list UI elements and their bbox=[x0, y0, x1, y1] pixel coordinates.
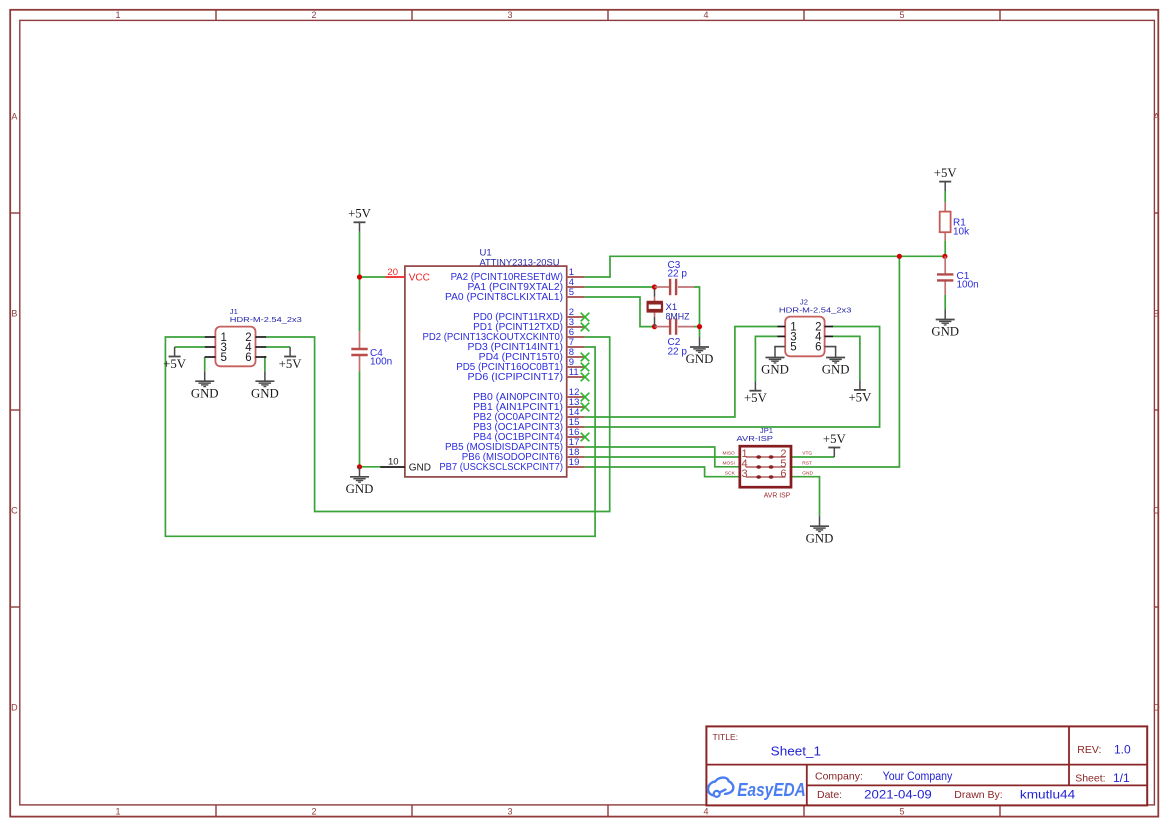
svg-text:TITLE:: TITLE: bbox=[713, 732, 739, 742]
svg-text:RST: RST bbox=[802, 460, 812, 466]
svg-text:GND: GND bbox=[806, 531, 834, 545]
+5V power port J1 pin3 bbox=[163, 347, 187, 371]
wire J2 pin4 to +5V bbox=[833, 336, 860, 380]
svg-text:2021-04-09: 2021-04-09 bbox=[864, 788, 932, 802]
junction GND / U1 pin10 bbox=[357, 464, 362, 469]
op-amp U1 body (IC ATTINY2313-20SU) bbox=[405, 248, 567, 477]
svg-text:5: 5 bbox=[790, 342, 796, 354]
U1 pin 9 (PD5) bbox=[456, 357, 589, 373]
+5V power port VCC rail bbox=[348, 207, 372, 232]
+5V power port J2 pin3 bbox=[744, 381, 768, 405]
svg-text:5: 5 bbox=[899, 806, 904, 816]
svg-text:20: 20 bbox=[387, 267, 398, 278]
junction RESET net node bbox=[897, 254, 902, 259]
U1 pin 15 (PB3) bbox=[473, 417, 585, 433]
svg-text:+5V: +5V bbox=[934, 166, 958, 180]
svg-text:6: 6 bbox=[245, 352, 251, 364]
capacitor C1 100n bbox=[937, 271, 979, 291]
svg-text:100n: 100n bbox=[957, 280, 979, 291]
wire C4 bottom to GND junction bbox=[359, 372, 361, 467]
U1 pin 1 (PA2) bbox=[451, 267, 585, 283]
svg-text:SCK: SCK bbox=[725, 470, 736, 476]
U1 pin 13 (PB1) bbox=[473, 397, 589, 413]
wire VCC junction to U1 pin 20 bbox=[360, 276, 386, 278]
svg-text:GND: GND bbox=[686, 352, 714, 366]
svg-text:GND: GND bbox=[409, 462, 431, 473]
svg-text:4: 4 bbox=[703, 806, 708, 816]
wire net MISO: U1 pin18 to JP1 pin1 bbox=[585, 456, 740, 458]
J2 pin 5 with ground lead bbox=[775, 342, 797, 354]
svg-text:AVR-ISP: AVR-ISP bbox=[737, 434, 774, 443]
U1 pin 8 (PD4) bbox=[479, 347, 590, 363]
wire net MOSI: U1 pin17 to JP1 pin4 bbox=[585, 447, 740, 467]
svg-text:5: 5 bbox=[569, 287, 574, 298]
J1 pin 3 bbox=[205, 342, 227, 354]
U1 pin 17 (PB5) bbox=[445, 437, 585, 453]
svg-text:D: D bbox=[1153, 702, 1160, 712]
svg-text:MISO: MISO bbox=[723, 450, 736, 456]
J1 pin 6 bbox=[245, 352, 266, 364]
svg-text:AVR ISP: AVR ISP bbox=[764, 491, 791, 500]
svg-text:GND: GND bbox=[251, 386, 279, 400]
svg-text:+5V: +5V bbox=[848, 390, 872, 404]
U1 pin 5 (PA0) bbox=[445, 287, 585, 303]
connector J1 HDR-M-2.54_2x3 bbox=[215, 307, 301, 366]
wire J1 pin6 to GND bbox=[265, 357, 266, 371]
svg-text:Company:: Company: bbox=[815, 770, 863, 782]
svg-text:A: A bbox=[11, 111, 17, 121]
wire GND junction to U1 pin 10 bbox=[360, 466, 381, 468]
wire J2 pin3 to +5V bbox=[755, 336, 777, 381]
wire net PB2: U1 pin14 to J2 pin1 bbox=[585, 327, 778, 418]
svg-text:8MHZ: 8MHZ bbox=[666, 312, 690, 323]
svg-text:1: 1 bbox=[115, 10, 120, 20]
wire net XTAL1: U1 pin5 PA0 to C2/X1 node bbox=[585, 297, 655, 327]
svg-text:VCC: VCC bbox=[409, 272, 430, 283]
svg-text:5: 5 bbox=[221, 352, 227, 364]
svg-text:VTG: VTG bbox=[802, 450, 812, 456]
wire VCC rail: +5V down through C4 top bbox=[359, 232, 361, 331]
U1 pin 7 (PD3) bbox=[468, 337, 585, 353]
resistor R1 10k bbox=[940, 202, 970, 241]
svg-text:10k: 10k bbox=[953, 227, 970, 238]
U1 pin 4 (PA1) bbox=[468, 277, 585, 293]
U1 pin 16 (PB4) bbox=[473, 427, 589, 443]
U1 pin 2 (PD0) bbox=[473, 307, 589, 323]
U1 pin 6 (PD2) bbox=[423, 327, 585, 343]
svg-text:A: A bbox=[1153, 111, 1159, 121]
svg-text:GND: GND bbox=[346, 482, 374, 496]
wire net RESET: U1 pin1 PA2 to R1/C1 node bbox=[585, 256, 945, 277]
capacitor C4 100n bbox=[351, 348, 392, 367]
svg-text:4: 4 bbox=[703, 10, 708, 20]
wire +5V to R1 top bbox=[944, 191, 946, 202]
J2 pin 1 bbox=[777, 322, 797, 334]
svg-text:1/1: 1/1 bbox=[1113, 771, 1130, 785]
capacitor C2 leads bbox=[655, 326, 671, 328]
junction XTAL2 node bbox=[652, 284, 657, 289]
junction XTAL1 node bbox=[652, 324, 657, 329]
svg-text:GND: GND bbox=[802, 470, 813, 476]
U1 pin 19 (PB7) bbox=[439, 457, 584, 473]
header JP1 AVR-ISP bbox=[737, 426, 792, 500]
capacitor C4 leads bbox=[359, 331, 361, 348]
J1 pin 4 bbox=[245, 342, 266, 354]
ground crystal caps bbox=[686, 337, 714, 366]
wire net PD3: U1 pin7 to J1 pin1 bbox=[165, 337, 595, 536]
wire net SCK: U1 pin19 to JP1 pin3 bbox=[585, 467, 740, 477]
svg-text:GND: GND bbox=[191, 386, 219, 400]
svg-text:3: 3 bbox=[507, 806, 512, 816]
+5V power port J1 pin4 bbox=[279, 347, 303, 371]
svg-text:22 p: 22 p bbox=[668, 347, 688, 358]
ground J1 pin5 bbox=[191, 371, 219, 400]
ground C1 bottom bbox=[931, 310, 959, 339]
svg-text:Drawn By:: Drawn By: bbox=[954, 789, 1002, 801]
svg-text:5: 5 bbox=[899, 10, 904, 20]
capacitor C1 leads bbox=[944, 256, 946, 273]
svg-text:C: C bbox=[1153, 505, 1160, 515]
J1 pin 2 bbox=[245, 332, 266, 344]
ground J1 pin6 bbox=[251, 371, 279, 400]
U1 pin 14 (PB2) bbox=[473, 407, 585, 423]
+5V power port J2 pin4 bbox=[848, 380, 872, 404]
svg-text:11: 11 bbox=[569, 367, 579, 378]
U1 pin 12 (PB0) bbox=[473, 387, 589, 403]
J2 pin 2 bbox=[815, 322, 833, 334]
svg-text:1: 1 bbox=[115, 806, 120, 816]
wire J1 pin4 to +5V bbox=[266, 346, 290, 348]
JP1 pin 4 (MOSI) and pin 5 (RST) bbox=[723, 458, 812, 470]
svg-text:Your Company: Your Company bbox=[883, 771, 953, 783]
svg-text:2: 2 bbox=[311, 806, 316, 816]
svg-text:PD6 (ICPIPCINT17): PD6 (ICPIPCINT17) bbox=[468, 372, 564, 383]
junction R1/C1 node bbox=[942, 254, 947, 259]
svg-text:GND: GND bbox=[761, 363, 789, 377]
svg-text:1.0: 1.0 bbox=[1114, 742, 1131, 756]
wire J1 pin3 to +5V bbox=[175, 346, 205, 348]
J1 pin 5 bbox=[205, 352, 227, 364]
svg-text:B: B bbox=[11, 308, 17, 318]
ground JP1 pin6 bbox=[806, 516, 834, 545]
J2 pin 6 with ground lead bbox=[815, 342, 836, 354]
svg-text:+5V: +5V bbox=[744, 391, 768, 405]
wire net PB3: U1 pin15 to J2 pin2 bbox=[585, 327, 880, 428]
svg-text:kmutlu44: kmutlu44 bbox=[1020, 788, 1076, 802]
junction C2/C3 ground node bbox=[697, 324, 702, 329]
U1 pin 10 GND bbox=[380, 456, 431, 473]
svg-text:19: 19 bbox=[569, 457, 580, 468]
capacitor C2 22p bbox=[668, 318, 688, 357]
junction VCC / U1 pin20 bbox=[357, 274, 362, 279]
svg-text:GND: GND bbox=[822, 363, 850, 377]
wire C1 bottom to GND bbox=[944, 295, 946, 310]
svg-text:+5V: +5V bbox=[823, 432, 847, 446]
JP1 pin 1 (MISO) and pin 2 (VTG) bbox=[723, 448, 813, 460]
svg-text:+5V: +5V bbox=[163, 357, 187, 371]
svg-text:Sheet_1: Sheet_1 bbox=[771, 743, 821, 758]
svg-text:6: 6 bbox=[815, 342, 821, 354]
svg-text:+5V: +5V bbox=[348, 207, 372, 221]
svg-text:D: D bbox=[11, 702, 18, 712]
svg-text:2: 2 bbox=[311, 10, 316, 20]
svg-text:100n: 100n bbox=[370, 356, 392, 367]
svg-text:3: 3 bbox=[507, 10, 512, 20]
J2 pin 3 bbox=[777, 331, 797, 343]
wire JP1 pin2 VTG to +5V bbox=[791, 456, 834, 458]
crystal X1 8MHZ bbox=[647, 289, 690, 327]
wire net PD2: U1 pin6 to J1 pin2 bbox=[266, 337, 609, 512]
capacitor C3 22p bbox=[668, 260, 688, 295]
ground J2 pin6 bbox=[822, 348, 850, 377]
svg-text:22 p: 22 p bbox=[668, 268, 688, 279]
svg-text:PA0 (PCINT8CLKIXTAL1): PA0 (PCINT8CLKIXTAL1) bbox=[445, 292, 563, 303]
svg-text:10: 10 bbox=[388, 456, 399, 467]
JP1 pin 3 (SCK) and pin 6 (GND) bbox=[725, 468, 814, 480]
svg-text:MOSI: MOSI bbox=[723, 460, 735, 466]
wire net RESET: vertical drop to JP1 RST pin 5 bbox=[791, 256, 899, 467]
svg-text:PB7 (USCKSCLSCKPCINT7): PB7 (USCKSCLSCKPCINT7) bbox=[439, 462, 563, 473]
svg-text:EasyEDA: EasyEDA bbox=[737, 780, 805, 800]
svg-text:ATTINY2313-20SU: ATTINY2313-20SU bbox=[480, 257, 560, 268]
svg-text:Sheet:: Sheet: bbox=[1075, 773, 1105, 785]
U1 pin 3 (PD1) bbox=[473, 317, 589, 333]
wire R1 bottom to node bbox=[944, 241, 946, 257]
svg-text:HDR-M-2.54_2x3: HDR-M-2.54_2x3 bbox=[230, 315, 302, 324]
wire C2 right lead to GND drop bbox=[694, 326, 700, 328]
U1 pin 18 (PB6) bbox=[462, 447, 585, 463]
wire J1 pin5 to GND bbox=[204, 357, 206, 371]
J2 pin 4 bbox=[815, 331, 833, 343]
ground J2 pin5 bbox=[761, 348, 789, 377]
U1 pin 20 VCC bbox=[385, 267, 430, 283]
svg-text:3: 3 bbox=[742, 468, 748, 480]
svg-text:+5V: +5V bbox=[279, 357, 303, 371]
svg-text:GND: GND bbox=[931, 325, 959, 339]
wire net XTAL2: U1 pin4 PA1 to C3/X1 node bbox=[585, 286, 655, 288]
connector J2 HDR-M-2.54_2x3 bbox=[779, 297, 852, 356]
svg-text:HDR-M-2.54_2x3: HDR-M-2.54_2x3 bbox=[779, 305, 852, 314]
svg-text:B: B bbox=[1153, 308, 1159, 318]
ground C4 / U1 GND bbox=[346, 467, 374, 496]
capacitor C3 leads bbox=[655, 286, 671, 288]
U1 pin 11 (PD6) bbox=[468, 367, 590, 383]
svg-text:6: 6 bbox=[780, 468, 786, 480]
J1 pin 1 bbox=[205, 332, 227, 344]
wire C3 right to C2 right / GND bbox=[694, 287, 700, 337]
wire JP1 pin6 to GND bbox=[791, 477, 820, 517]
svg-text:REV:: REV: bbox=[1077, 744, 1101, 756]
svg-text:C: C bbox=[11, 505, 18, 515]
+5V power port JP1 VTG bbox=[823, 432, 847, 457]
svg-text:Date:: Date: bbox=[817, 789, 842, 801]
+5V power port R1 top bbox=[934, 166, 958, 191]
